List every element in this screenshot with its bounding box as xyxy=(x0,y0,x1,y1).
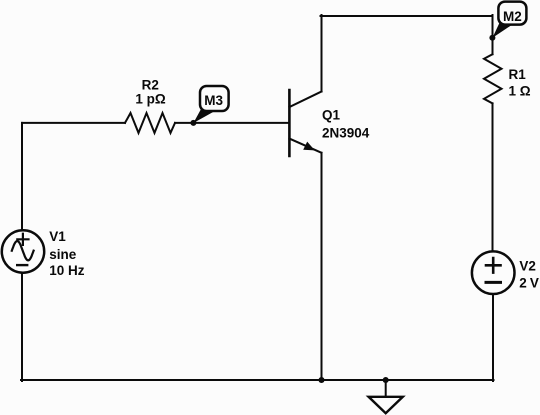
wire bottom rail xyxy=(21,379,494,381)
wire left vertical lower (V1 to bottom rail) xyxy=(21,273,23,381)
svg-text:sine: sine xyxy=(49,247,77,262)
wire right vertical upper (top rail to R1) xyxy=(492,15,494,54)
svg-text:M2: M2 xyxy=(503,9,522,24)
ground stub xyxy=(385,380,387,396)
wire right vertical lower (V2 to bottom rail) xyxy=(492,294,494,381)
V2 circle xyxy=(472,251,515,294)
ground xyxy=(369,377,403,413)
svg-text:1 pΩ: 1 pΩ xyxy=(135,92,166,107)
wire emitter vertical xyxy=(321,153,323,380)
ground junction dot xyxy=(383,377,389,383)
collector diagonal xyxy=(289,92,321,108)
svg-text:2N3904: 2N3904 xyxy=(322,125,370,140)
wire left vertical upper (V1 to base wire) xyxy=(21,123,23,230)
wire collector vertical xyxy=(321,15,323,92)
voltage source V1 xyxy=(2,230,44,272)
base bar xyxy=(288,90,291,156)
wire right vertical middle (R1 to V2) xyxy=(492,103,494,251)
svg-text:Q1: Q1 xyxy=(322,108,341,123)
transistor Q1 xyxy=(289,90,321,156)
V1 plus sign xyxy=(17,234,28,245)
V1 sine wave xyxy=(12,241,34,260)
emitter diagonal xyxy=(289,139,321,153)
V1 minus sign xyxy=(17,264,27,266)
svg-text:V2: V2 xyxy=(519,258,536,273)
emitter arrow xyxy=(303,142,315,151)
V1 circle xyxy=(2,230,44,272)
svg-text:10 Hz: 10 Hz xyxy=(49,263,85,278)
svg-text:R2: R2 xyxy=(142,77,159,92)
M2 node dot xyxy=(489,35,495,41)
svg-text:1 Ω: 1 Ω xyxy=(509,84,531,99)
svg-text:R1: R1 xyxy=(509,67,527,82)
wire base right (R2 to Q1 base) xyxy=(175,122,288,124)
M2 callout box xyxy=(498,2,526,25)
probe M3 xyxy=(190,86,228,126)
svg-text:V1: V1 xyxy=(49,229,66,244)
wire base left (V1 top to R2) xyxy=(22,122,125,124)
voltage source V2 xyxy=(472,251,515,294)
svg-text:M3: M3 xyxy=(204,93,223,108)
M3 callout tail xyxy=(193,105,214,124)
ground triangle xyxy=(369,397,403,413)
node emitter-bottom junction dot xyxy=(319,377,325,383)
resistor R1 xyxy=(484,54,502,103)
M3 callout box xyxy=(200,86,229,111)
wire top rail (collector loop) xyxy=(321,15,493,17)
V2 minus sign xyxy=(486,281,501,284)
V2 plus sign xyxy=(486,258,501,273)
svg-text:2 V: 2 V xyxy=(519,275,539,290)
M2 callout tail xyxy=(492,19,512,38)
resistor R2 xyxy=(125,113,175,133)
M3 node dot xyxy=(190,120,196,126)
probe M2 xyxy=(489,2,526,41)
